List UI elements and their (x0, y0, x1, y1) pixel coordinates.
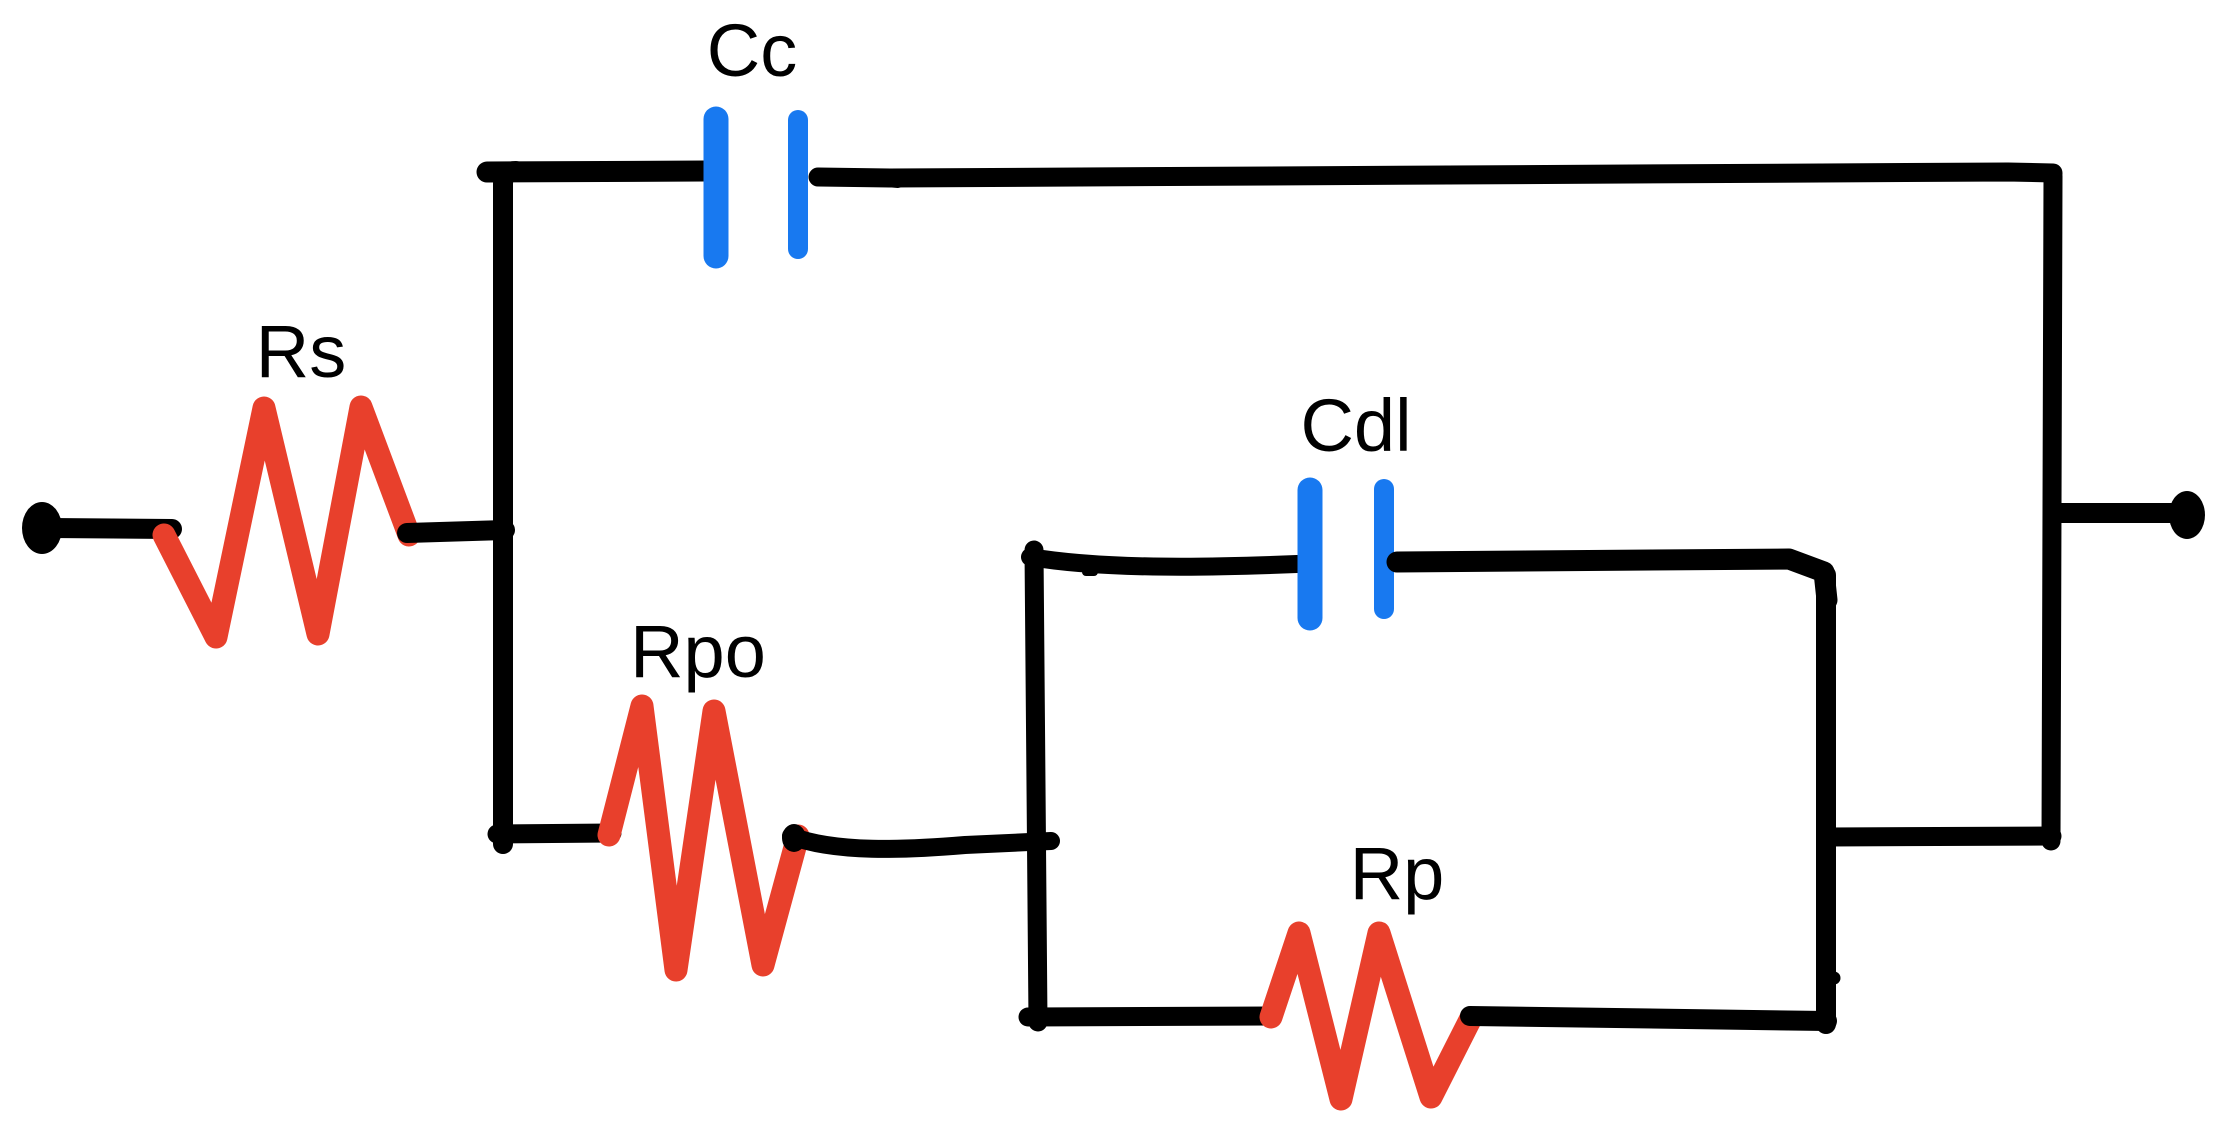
wire node C to right vertical (1828, 836, 2052, 837)
wire right vertical (2051, 176, 2053, 841)
capacitor Cdl (1310, 489, 1384, 618)
node A vertical trunk (503, 171, 516, 844)
wire node B to Rp (1028, 1016, 1272, 1017)
wire Rpo to node B (791, 836, 1051, 849)
svg-text:Rs: Rs (256, 310, 346, 393)
svg-text:Rpo: Rpo (630, 610, 766, 693)
resistor Rpo (609, 706, 798, 970)
wire node A to Rpo (497, 833, 612, 834)
wire Cc to top-right corner (818, 172, 2053, 178)
wire Cdl to inner-right corner (1397, 559, 1827, 600)
node right terminal (2169, 491, 2205, 539)
wire node A to Cc (487, 171, 705, 172)
wire left terminal to Rs (50, 528, 172, 529)
capacitor Cc (716, 119, 798, 256)
svg-text:Cdl: Cdl (1300, 384, 1411, 467)
svg-text:Cc: Cc (707, 9, 797, 92)
wire node B to Cdl (1030, 557, 1297, 567)
wire inner-right vertical (1816, 575, 1836, 1024)
svg-text:Rp: Rp (1350, 832, 1445, 915)
wire Rp to inner-right vertical (1470, 1016, 1827, 1021)
node left terminal (22, 502, 62, 554)
wire Rs to node A (407, 530, 505, 533)
wire to right terminal (2056, 503, 2172, 523)
resistor Rp (1271, 933, 1471, 1099)
resistor Rs (164, 407, 409, 637)
node B inner-left vertical (1034, 550, 1038, 1022)
